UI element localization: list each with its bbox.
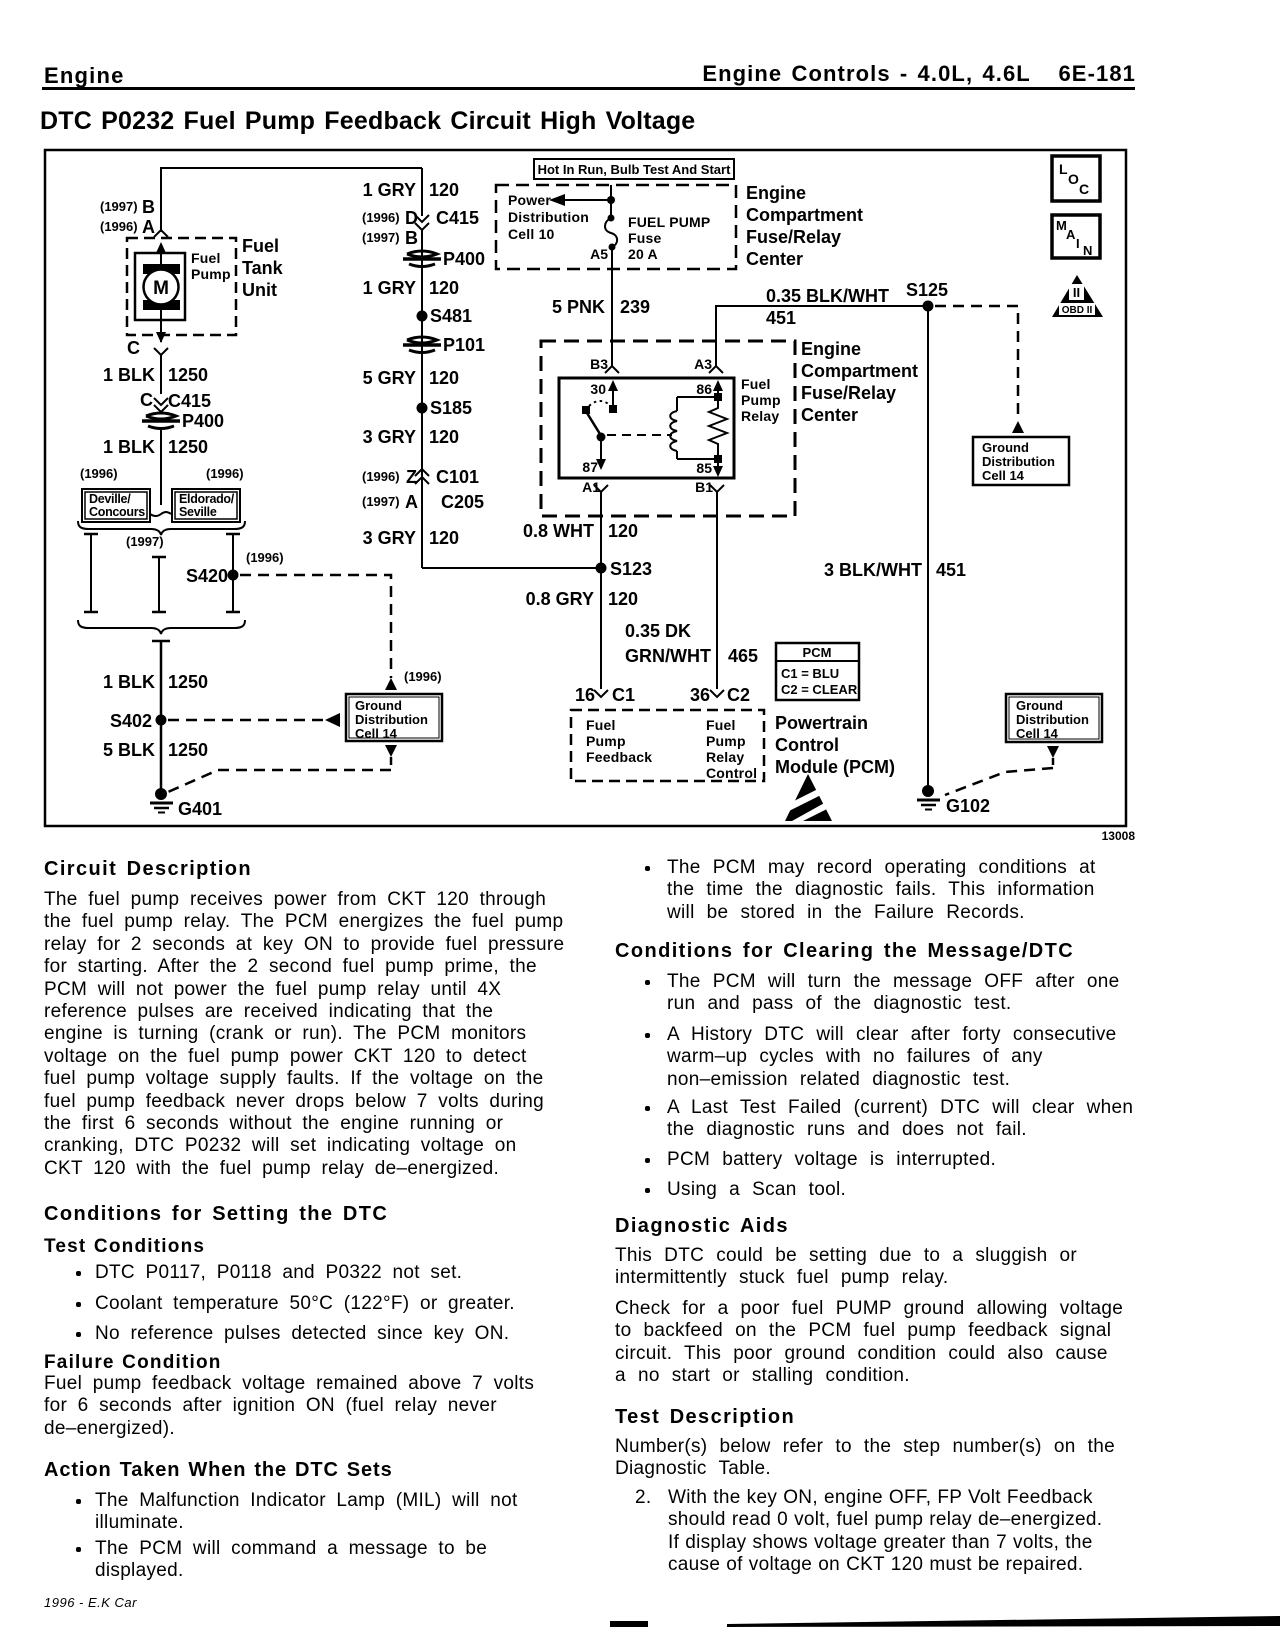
wire A5 to relay B3 [611,269,613,366]
pin C label and chevron below tank [127,338,168,358]
svg-text:Cell 14: Cell 14 [355,726,398,741]
(1996) labels above model boxes [80,466,244,481]
pass-through grommet P101 [403,335,485,355]
svg-text:Hot In Run, Bulb Test And Star: Hot In Run, Bulb Test And Start [538,162,731,177]
fuel tank unit label [242,236,284,300]
left bracket rail [84,534,98,612]
svg-text:13008: 13008 [1102,829,1136,843]
label 0.8 WHT 120 [523,521,638,541]
svg-text:Fuse/Relay: Fuse/Relay [746,227,841,247]
svg-text:1250: 1250 [168,437,208,457]
pin A5 label [590,246,608,262]
label 1 BLK 1250 [103,365,208,385]
svg-text:Pump: Pump [741,392,781,408]
fuel tank unit dashed box [127,238,236,335]
svg-text:C415: C415 [168,391,211,411]
svg-text:C205: C205 [441,492,484,512]
svg-text:Engine: Engine [746,183,806,203]
svg-text:C: C [140,390,153,410]
svg-text:II: II [1073,285,1080,300]
svg-text:3 BLK/WHT: 3 BLK/WHT [824,560,922,580]
dashed wire S125 to ground distribution (right upper) [935,306,1024,433]
dashed wire ground distribution to G401 [168,757,391,792]
svg-text:0.35 DK: 0.35 DK [625,621,691,641]
wire below brace to ground [152,641,170,793]
svg-text:1 BLK: 1 BLK [103,437,155,457]
header rule [42,87,1135,90]
label 1 GRY 120 (top) [363,180,459,200]
wire middle branch C415 to S123 [422,168,602,568]
svg-text:1 GRY: 1 GRY [363,180,416,200]
svg-text:Deville/: Deville/ [89,492,131,506]
svg-text:120: 120 [608,589,638,609]
svg-text:Center: Center [801,405,858,425]
svg-text:85: 85 [696,460,712,476]
ground G401 [150,788,222,819]
dashed actuator link [607,434,672,436]
ground distribution cell 14 box (lower right) [1006,694,1102,742]
svg-text:Unit: Unit [242,280,277,300]
svg-text:A: A [1066,227,1076,242]
svg-text:C: C [127,338,140,358]
svg-text:Engine: Engine [801,339,861,359]
svg-text:Power: Power [508,192,551,208]
svg-text:1250: 1250 [168,672,208,692]
svg-text:P400: P400 [182,411,224,431]
svg-text:(1997): (1997) [362,230,400,245]
dashed wire lower right ground distribution to G102 [945,758,1053,795]
svg-text:Compartment: Compartment [801,361,918,381]
svg-text:Tank: Tank [242,258,284,278]
svg-text:C101: C101 [436,467,479,487]
pass-through grommet P400 (middle) [403,249,485,269]
svg-text:C2: C2 [727,685,750,705]
fuel pump label [191,250,231,282]
(1997) label [126,534,164,549]
svg-text:C2 = CLEAR: C2 = CLEAR [781,682,858,697]
svg-text:120: 120 [429,278,459,298]
svg-text:Pump: Pump [191,266,231,282]
svg-text:S125: S125 [906,280,948,300]
label 5 GRY 120 [363,368,459,388]
svg-text:S123: S123 [610,559,652,579]
svg-text:0.35 BLK/WHT: 0.35 BLK/WHT [766,286,889,306]
svg-text:Module (PCM): Module (PCM) [775,757,895,777]
splice S123 [596,559,653,579]
relay pin 85 arrow [696,455,723,477]
arrow up inside fuel tank box [156,242,166,270]
svg-text:A: A [142,217,155,237]
svg-text:451: 451 [936,560,966,580]
pass-through grommet P400 (left) [142,411,224,431]
power distribution label [508,192,589,242]
splice S185 [417,398,473,418]
svg-text:(1996): (1996) [100,219,138,234]
svg-text:PCM: PCM [803,645,832,660]
wire P400 to Deville boxes [160,428,162,505]
svg-text:B: B [405,228,418,248]
svg-text:87: 87 [582,459,598,475]
svg-text:(1996): (1996) [362,469,400,484]
svg-text:Concours: Concours [89,505,145,519]
relay pin 30 arrow [590,380,618,413]
svg-text:1 BLK: 1 BLK [103,365,155,385]
svg-text:451: 451 [766,308,796,328]
svg-text:0.8 GRY: 0.8 GRY [526,589,594,609]
label 5 BLK 1250 [103,740,208,760]
label 3 GRY 120 (second) [363,528,459,548]
svg-text:Fuel: Fuel [586,717,616,733]
arrow below lower right ground distribution [1047,746,1059,758]
svg-text:120: 120 [608,521,638,541]
wire A3 up and 0.35 BLK/WHT to S125 [716,306,928,366]
wire from pump down with arrow [156,304,166,343]
svg-text:(1996): (1996) [404,669,442,684]
label 0.35 DK GRN/WHT 465 [625,621,758,666]
squiggle link between model boxes [150,512,171,516]
svg-text:Feedback: Feedback [586,749,652,765]
label 5 PNK 239 [552,297,650,317]
svg-text:1 BLK: 1 BLK [103,672,155,692]
svg-text:Pump: Pump [586,733,626,749]
svg-text:C1: C1 [612,685,635,705]
svg-text:B: B [142,197,155,217]
svg-text:16: 16 [575,685,595,705]
svg-text:(1997): (1997) [100,199,138,214]
svg-text:(1996): (1996) [362,210,400,225]
svg-text:Powertrain: Powertrain [775,713,868,733]
svg-text:OBD II: OBD II [1062,305,1093,316]
pin B3 [590,356,619,373]
svg-text:1250: 1250 [168,365,208,385]
svg-text:(1996): (1996) [80,466,118,481]
svg-text:A1: A1 [582,479,600,495]
svg-text:(1997): (1997) [362,494,400,509]
Eldorado/Seville box [172,489,240,522]
relay coil L [670,397,718,459]
svg-text:(1996): (1996) [246,550,284,565]
svg-text:P101: P101 [443,335,485,355]
svg-text:Distribution: Distribution [508,209,589,225]
svg-text:A3: A3 [694,356,712,372]
svg-text:36: 36 [690,685,710,705]
svg-text:S185: S185 [430,398,472,418]
svg-text:Cell 14: Cell 14 [982,468,1025,483]
svg-text:1250: 1250 [168,740,208,760]
svg-text:S481: S481 [430,306,472,326]
svg-text:Cell 14: Cell 14 [1016,726,1059,741]
MAIN symbol [1052,215,1100,258]
svg-text:5 GRY: 5 GRY [363,368,416,388]
fuel pump relay control label [706,717,757,781]
bottom next-page table edge [0,1610,1280,1632]
right bracket rail [226,534,240,612]
svg-text:(1997): (1997) [126,534,164,549]
dashed wire S402 to ground distribution box [168,713,340,727]
svg-text:C1 = BLU: C1 = BLU [781,666,839,681]
svg-text:3 GRY: 3 GRY [363,528,416,548]
connector C101/C205 [362,467,484,512]
page title [40,107,695,136]
svg-text:Fuel: Fuel [741,376,771,392]
svg-text:B1: B1 [695,479,713,495]
Deville/Concours box [82,489,150,522]
svg-text:1 GRY: 1 GRY [363,278,416,298]
LOC symbol [1052,156,1100,201]
page header left [44,63,125,89]
svg-text:5 PNK: 5 PNK [552,297,605,317]
svg-text:FUEL PUMP: FUEL PUMP [628,214,710,230]
svg-text:GRN/WHT: GRN/WHT [625,646,711,666]
(1996) label above ground distribution [404,669,442,684]
svg-text:86: 86 [696,381,712,397]
svg-text:3 GRY: 3 GRY [363,427,416,447]
svg-text:N: N [1083,243,1092,258]
label 0.35 BLK/WHT 451 [766,286,889,328]
svg-text:465: 465 [728,646,758,666]
svg-text:Control: Control [775,735,839,755]
svg-text:C415: C415 [436,208,479,228]
svg-text:Fuse: Fuse [628,230,661,246]
svg-text:Distribution: Distribution [982,454,1055,469]
svg-text:G102: G102 [946,796,990,816]
svg-text:120: 120 [429,528,459,548]
svg-text:O: O [1068,171,1079,187]
relay switch to pin 87 arrow [582,437,606,475]
svg-text:Distribution: Distribution [355,712,428,727]
svg-text:G401: G401 [178,799,222,819]
svg-text:Fuel: Fuel [191,250,221,266]
svg-text:A5: A5 [590,246,608,262]
svg-text:Eldorado/: Eldorado/ [179,492,235,506]
wire A1 down to C1 [600,492,602,689]
ground distribution cell 14 box (left) [346,694,442,741]
label 1 BLK 1250 (third) [103,672,208,692]
svg-text:B3: B3 [590,356,608,372]
svg-text:120: 120 [429,368,459,388]
fuel pump relay label [741,376,781,424]
fuel pump motor M1 [143,264,180,310]
svg-text:Fuel: Fuel [242,236,279,256]
power distribution dashed box [496,185,736,269]
svg-text:Compartment: Compartment [746,205,863,225]
splice S402 [110,711,167,731]
splice S481 [417,306,473,326]
lower grouping brace (pointing down) [78,620,245,634]
wire C to C415 [160,355,162,394]
svg-text:Cell 10: Cell 10 [508,226,555,242]
svg-text:120: 120 [429,427,459,447]
svg-text:30: 30 [590,381,606,397]
label 1 GRY 120 (second) [363,278,459,298]
engine compartment label (relay center) [801,339,918,425]
svg-text:Ground: Ground [355,698,402,713]
upper grouping brace (pointing down) [78,521,245,535]
OBD II triangle symbol [1052,275,1103,317]
ground G102 [917,785,990,816]
svg-text:239: 239 [620,297,650,317]
PCM dashed box [571,710,764,781]
svg-text:0.8 WHT: 0.8 WHT [523,521,594,541]
fuse labels FUEL PUMP Fuse 20 A [628,214,710,262]
svg-text:I: I [1076,236,1080,251]
wire B1 down to C2 [716,492,718,689]
engine compartment label (fuse center) [746,183,863,269]
svg-text:P400: P400 [443,249,485,269]
svg-text:20 A: 20 A [628,246,658,262]
svg-text:Relay: Relay [706,749,744,765]
svg-text:Distribution: Distribution [1016,712,1089,727]
pin A1 [582,479,608,495]
connector pin labels (1997) B / (1996) A at fuel tank [100,197,155,237]
relay pin 86 arrow [696,380,723,401]
relay dashed box (engine compartment fuse/relay center) [541,341,795,516]
arrow out of ground distribution bottom [385,745,397,757]
powertrain control module label [775,713,895,777]
dashed wire S420 to ground distribution [240,575,391,678]
svg-text:Ground: Ground [1016,698,1063,713]
fuel pump relay box U1 [559,378,734,478]
svg-text:Relay: Relay [741,408,779,424]
svg-text:(1996): (1996) [206,466,244,481]
label 3 GRY 120 [363,427,459,447]
svg-text:M: M [153,278,169,299]
page header right [0,61,1136,87]
diagram frame [45,150,1126,826]
splice S420 [186,566,239,586]
connector chevron at fuel tank top [154,230,168,237]
arrow into ground distribution top [385,678,397,690]
relay resistor R [709,397,727,459]
svg-text:S402: S402 [110,711,152,731]
svg-text:Control: Control [706,765,757,781]
connector C415 (middle) [362,208,479,248]
svg-text:A: A [405,492,418,512]
label 0.8 GRY 120 [526,589,638,609]
svg-text:Seville: Seville [179,505,217,519]
pin B1 [695,479,724,495]
fuel pump inner box [135,253,185,320]
pin 36 C2 [690,685,750,705]
fuel pump fuse F [605,200,617,269]
ESD warning symbol [784,774,832,821]
svg-text:C: C [1079,181,1089,197]
connector C415 (left) chevrons [140,390,211,414]
pin A3 [694,356,723,373]
pin 16 C1 [575,685,635,705]
splice S125 [906,280,948,312]
svg-text:Pump: Pump [706,733,746,749]
ground distribution cell 14 box (upper right) [973,437,1069,485]
fuel pump feedback label [586,717,652,765]
wire top horizontal from fuel pump to C415 branch [161,168,422,232]
feed wire and arrow inside power box [549,185,615,206]
PCM connector legend box [776,643,859,700]
middle bracket rail [152,557,166,612]
svg-text:L: L [1059,161,1068,177]
svg-text:Ground: Ground [982,440,1029,455]
svg-text:Fuse/Relay: Fuse/Relay [801,383,896,403]
svg-text:S420: S420 [186,566,228,586]
svg-text:120: 120 [429,180,459,200]
Hot In Run label box [534,159,734,179]
label 3 BLK/WHT 451 [824,560,966,580]
label 1 BLK 1250 (second) [103,437,208,457]
relay switch arm [582,401,611,442]
svg-text:Fuel: Fuel [706,717,736,733]
(1996) label at S420 [246,550,284,565]
svg-text:Center: Center [746,249,803,269]
wire S125 down to G102 [927,306,929,789]
svg-text:5 BLK: 5 BLK [103,740,155,760]
